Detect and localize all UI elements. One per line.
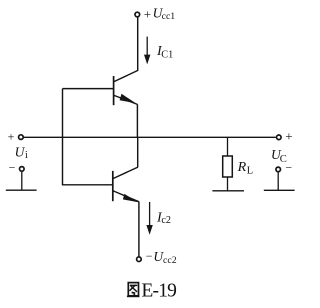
caption glyph 图 [127, 283, 139, 297]
svg-text:U: U [15, 144, 26, 159]
label +Ucc1 [144, 6, 175, 23]
rail bar (left) [6, 189, 37, 191]
wire Uc minus stub [277, 172, 279, 190]
svg-text:C1: C1 [161, 49, 173, 60]
wire emitter Q2 to -Ucc2 [138, 202, 140, 257]
terminal Ui plus [19, 135, 24, 140]
svg-text:+: + [285, 129, 292, 144]
svg-text:c2: c2 [161, 215, 171, 226]
wire collector Q2 to output node [137, 137, 139, 167]
resistor RL [223, 137, 233, 191]
label Uc [271, 147, 287, 165]
svg-text:R: R [237, 160, 247, 175]
transistor Q2 [113, 167, 139, 202]
svg-text:i: i [25, 150, 28, 161]
rail bar (under RL) [212, 190, 244, 192]
svg-text:−: − [146, 249, 153, 263]
wire middle output line [24, 136, 276, 138]
label Ic2 [156, 211, 171, 227]
svg-text:L: L [247, 166, 253, 177]
terminal -Ucc2 [137, 257, 142, 262]
wire Ui minus stub [21, 172, 23, 190]
current arrow IC1 [144, 37, 150, 65]
wire emitter Q1 to output node [136, 104, 138, 137]
transistor Q1 [114, 70, 139, 105]
label Ui [15, 144, 28, 161]
wire base Q1 [63, 88, 114, 90]
wire base Q2 [62, 184, 113, 186]
label -Ucc2 [146, 249, 177, 266]
current arrow Ic2 [146, 202, 152, 235]
terminal Uc minus [276, 167, 281, 172]
svg-text:E-19: E-19 [141, 280, 176, 301]
terminal Ui minus [20, 167, 25, 172]
label IC1 [156, 44, 173, 60]
wire collector Q1 to +Ucc1 [137, 17, 139, 70]
svg-text:cc2: cc2 [163, 255, 177, 266]
terminal +Ucc1 [135, 12, 140, 17]
svg-text:−: − [285, 160, 292, 174]
wire base bus vertical [62, 89, 64, 185]
svg-text:+: + [8, 130, 15, 144]
svg-text:cc1: cc1 [162, 11, 176, 22]
svg-text:−: − [9, 160, 16, 174]
svg-text:+: + [144, 6, 151, 21]
rail bar (right) [264, 189, 295, 191]
label RL [237, 160, 254, 176]
terminal Uc plus [277, 135, 282, 140]
